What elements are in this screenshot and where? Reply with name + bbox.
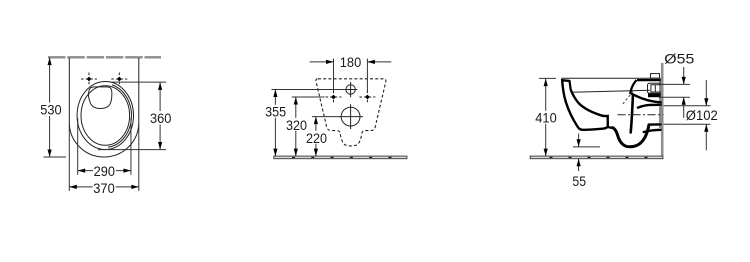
outlet inner bottom line [649, 123, 660, 126]
dimension diameter 102 label [685, 108, 721, 122]
rim inner ellipse [81, 86, 130, 146]
flush stream dashed line [622, 92, 634, 106]
outlet outer bottom line [644, 130, 661, 132]
dimension diameter 102 line [705, 80, 707, 106]
dimension 370 line [69, 186, 139, 188]
inlet socket outer [648, 83, 661, 93]
svg-text:360: 360 [150, 110, 172, 126]
dimension 55 line lower [578, 159, 580, 171]
floor strip ticks (side view) [550, 156, 648, 158]
dimension 360 line [159, 82, 161, 149]
wall fixing hole left [326, 91, 342, 104]
dimension 360 label [149, 111, 172, 125]
svg-text:220: 220 [306, 130, 327, 146]
rim top line [561, 77, 661, 79]
svg-text:290: 290 [94, 163, 116, 179]
dimension 290 line [78, 170, 131, 172]
dimension 220 label [305, 131, 328, 144]
WC back edge [659, 79, 661, 128]
dimension 180 extension lines [333, 59, 335, 92]
svg-text:Ø102: Ø102 [686, 107, 718, 123]
WC body outline (top view) [69, 58, 139, 157]
dimension 220 extension line [312, 116, 341, 118]
dimension 355 line [274, 90, 276, 157]
svg-text:410: 410 [535, 110, 557, 126]
dimension 355 label [264, 105, 287, 118]
outlet circle [341, 107, 360, 126]
dimension 55 line upper [578, 134, 580, 147]
inlet socket step line [654, 85, 656, 92]
dimension 290 extension lines [77, 118, 79, 175]
svg-text:530: 530 [40, 102, 62, 118]
dimension 180 line with outside arrows [310, 61, 334, 63]
dimension 370 label [93, 181, 116, 194]
rim outer ellipse [77, 82, 133, 150]
wall fixing hole right [359, 91, 375, 104]
front bullnose and outer face and bowl bottom [562, 80, 612, 130]
outlet top line [638, 105, 661, 108]
dimension 530 extension line bottom [44, 156, 67, 158]
dimension 320 label [285, 118, 308, 131]
inlet socket top clip [651, 74, 660, 79]
dimension diameter 55 line [683, 67, 685, 84]
WC rear dashed outline [316, 79, 386, 146]
dimension 55 extension line [573, 146, 600, 148]
svg-text:Ø55: Ø55 [664, 51, 694, 67]
inlet housing top [637, 79, 661, 81]
dimension diameter 102 extension lines [664, 105, 711, 107]
dimension 410 line [545, 79, 547, 157]
dimension 410 extension line [539, 77, 556, 79]
svg-text:370: 370 [93, 180, 115, 196]
dimension 530 label [39, 103, 62, 117]
dimension 370 extension lines [68, 124, 70, 191]
rim detail arc (right side) [108, 85, 132, 147]
dimension 320 extension line [292, 96, 325, 98]
floor strip (side view) [530, 156, 663, 159]
dimension 320 line [295, 97, 297, 156]
dimension 355 extension line [272, 89, 346, 91]
svg-text:180: 180 [340, 54, 362, 70]
dimension 220 line [315, 117, 317, 157]
rim inner curve and weir drop [571, 90, 608, 127]
floor strip ticks [292, 156, 392, 158]
inner bowl outline [89, 87, 112, 109]
inlet housing left edge [630, 80, 636, 93]
svg-text:320: 320 [286, 117, 307, 133]
water inlet circle [346, 85, 355, 94]
dimension diameter 55 extension lines [659, 83, 691, 85]
seat fixing cross right [111, 73, 127, 86]
wall dashed line (top view) [48, 56, 161, 58]
wall bar (side view) [661, 63, 664, 156]
bullnose right edge [570, 81, 571, 90]
rim shelf line [572, 90, 650, 92]
dimension 290 label [93, 164, 116, 177]
inlet channel bottom [630, 93, 661, 102]
inlet socket flange bottom fill [648, 93, 661, 97]
inlet socket inner [651, 85, 661, 92]
dimension 530 line [49, 58, 51, 157]
outlet centre line [618, 114, 664, 116]
dimension 410 label [535, 111, 558, 124]
dimension 360 extension lines [112, 81, 167, 83]
seat fixing cross left [81, 73, 97, 86]
bowl back wall (trap divider) [631, 96, 633, 133]
svg-text:355: 355 [265, 104, 286, 120]
svg-text:55: 55 [572, 173, 586, 189]
sump outer curve [613, 125, 649, 147]
floor strip (rear view) [274, 156, 407, 159]
